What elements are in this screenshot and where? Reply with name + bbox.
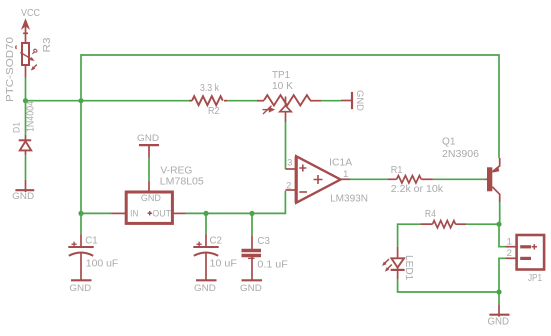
- svg-text:R4: R4: [425, 209, 436, 220]
- svg-text:2: 2: [507, 247, 512, 258]
- svg-text:LED1: LED1: [403, 255, 414, 281]
- svg-text:LM78L05: LM78L05: [160, 177, 204, 188]
- svg-text:V-REG: V-REG: [160, 166, 192, 177]
- svg-text:C2: C2: [210, 236, 223, 247]
- svg-text:100 uF: 100 uF: [86, 259, 119, 270]
- svg-text:VCC: VCC: [21, 8, 40, 19]
- svg-text:1: 1: [343, 168, 348, 179]
- svg-text:GND: GND: [240, 283, 262, 294]
- svg-text:1N4004: 1N4004: [26, 101, 37, 132]
- svg-text:GND: GND: [137, 133, 159, 144]
- svg-text:OUT: OUT: [152, 209, 171, 220]
- svg-text:TP1: TP1: [272, 70, 290, 81]
- svg-text:Q1: Q1: [442, 137, 456, 148]
- svg-text:R2: R2: [208, 106, 220, 117]
- svg-text:LM393N: LM393N: [330, 194, 368, 205]
- svg-text:3.3 k: 3.3 k: [200, 83, 220, 94]
- svg-text:IN: IN: [130, 209, 138, 220]
- svg-text:R1: R1: [391, 165, 403, 176]
- svg-text:R3: R3: [42, 37, 53, 52]
- svg-text:2: 2: [286, 180, 291, 191]
- svg-text:GND: GND: [69, 283, 91, 294]
- svg-text:GND: GND: [488, 317, 510, 328]
- svg-text:PTC-SOD70: PTC-SOD70: [5, 36, 16, 102]
- svg-text:JP1: JP1: [528, 273, 542, 284]
- svg-text:GND: GND: [141, 193, 161, 204]
- svg-text:GND: GND: [354, 90, 365, 111]
- svg-text:10 uF: 10 uF: [210, 259, 237, 270]
- svg-text:C1: C1: [85, 236, 98, 247]
- svg-text:3: 3: [287, 157, 292, 168]
- svg-text:C3: C3: [257, 236, 270, 247]
- svg-text:IC1A: IC1A: [329, 158, 352, 169]
- svg-text:0.1 uF: 0.1 uF: [257, 259, 287, 270]
- svg-text:2N3906: 2N3906: [442, 149, 479, 160]
- svg-text:1: 1: [507, 235, 512, 246]
- svg-text:GND: GND: [194, 283, 216, 294]
- svg-text:GND: GND: [12, 191, 34, 202]
- svg-text:2.2k or 10k: 2.2k or 10k: [391, 184, 444, 195]
- svg-text:10 K: 10 K: [272, 81, 293, 92]
- svg-text:D1: D1: [11, 122, 22, 133]
